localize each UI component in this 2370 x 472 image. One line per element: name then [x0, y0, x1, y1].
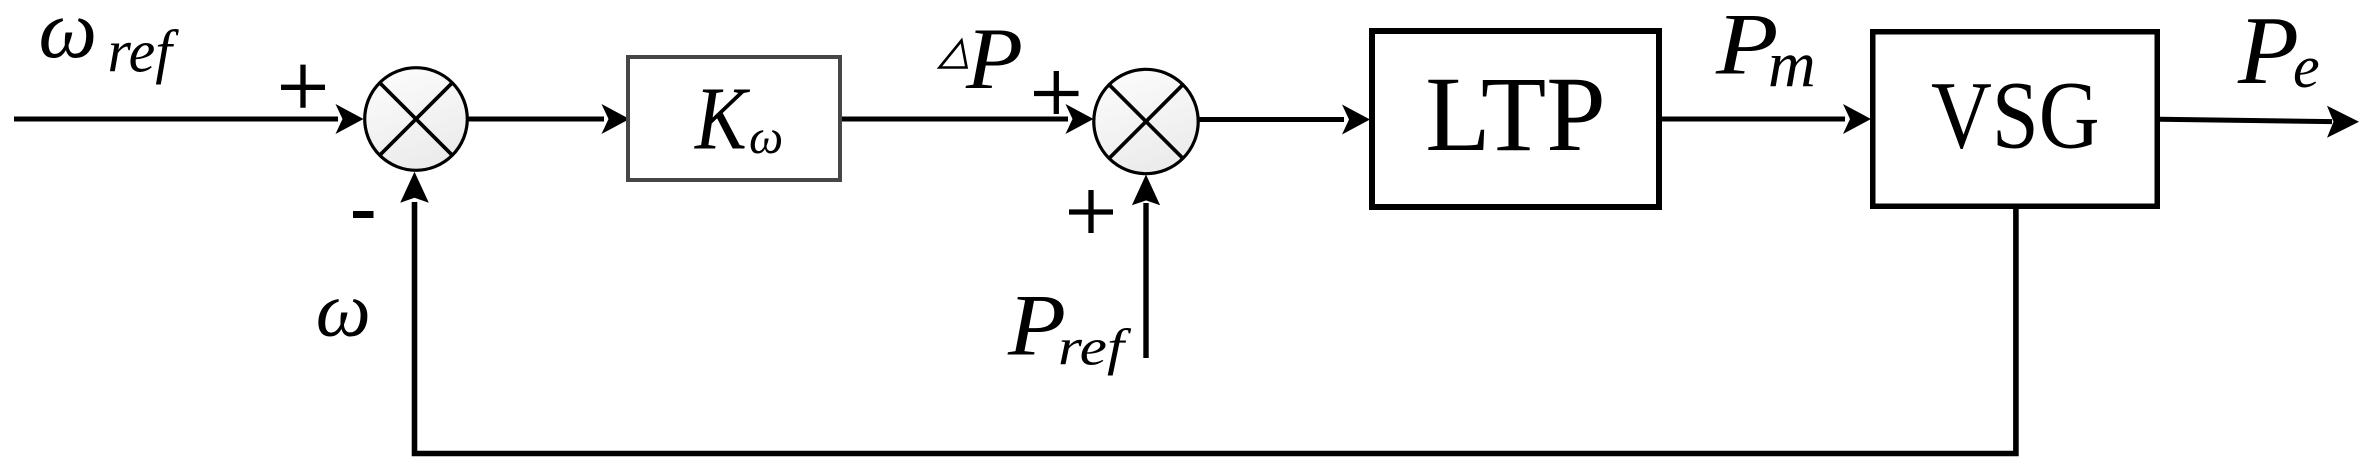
- svg-text:LTP: LTP: [1425, 56, 1605, 174]
- svg-text:ω: ω: [39, 0, 98, 75]
- svg-text:K: K: [694, 69, 750, 169]
- svg-text:ω: ω: [749, 111, 783, 164]
- svg-text:P: P: [2237, 0, 2299, 104]
- svg-text:ref: ref: [108, 19, 180, 85]
- svg-text:P: P: [965, 11, 1023, 108]
- svg-text:ω: ω: [316, 266, 371, 353]
- svg-text:e: e: [2293, 34, 2320, 100]
- svg-text:ref: ref: [1058, 319, 1132, 377]
- svg-text:m: m: [1768, 28, 1816, 101]
- svg-text:VSG: VSG: [1931, 63, 2100, 169]
